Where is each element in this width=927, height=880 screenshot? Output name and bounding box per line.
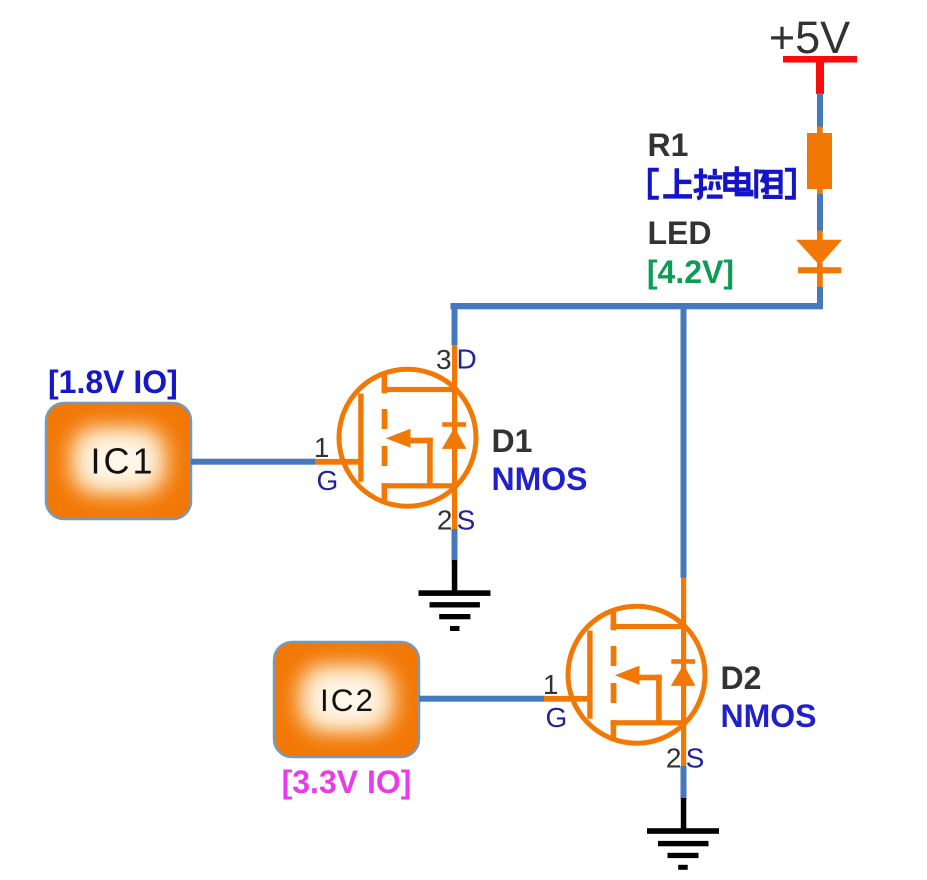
svg-text:[4.2V]: [4.2V] [647,254,734,290]
wire R1 to LED [817,194,823,232]
svg-text:LED: LED [648,215,712,251]
svg-text:D: D [456,344,476,375]
svg-text:[1.8V IO]: [1.8V IO] [48,364,178,400]
D1 channel dashes [382,409,388,429]
wire D2 drain drop [681,303,687,578]
svg-text:IC1: IC1 [90,441,155,482]
wire +5V to R1 [817,93,823,128]
D2 channel dashes [611,646,617,666]
svg-text:2: 2 [437,505,453,536]
D1 body circle [339,369,476,506]
svg-text:S: S [686,742,705,773]
svg-text:+5V: +5V [769,12,850,63]
svg-text:1: 1 [314,432,330,463]
D2 body diode [671,659,695,664]
svg-text:D1: D1 [492,423,533,459]
wire D1 drain drop [452,303,458,345]
wire D2 source to ground [681,766,687,799]
svg-text:IC2: IC2 [320,682,375,718]
wire IC1 to D1 gate [191,459,315,465]
svg-text:G: G [546,702,568,733]
svg-text:S: S [457,505,476,536]
D1 gate bar [358,394,363,482]
label [上拉电阻] [650,166,794,198]
bracket [ [650,170,659,198]
power +5V rail symbol [783,56,857,63]
D1 source bar [382,483,457,488]
svg-text:NMOS: NMOS [492,461,588,497]
svg-text:R1: R1 [648,127,689,163]
D1 substrate arrow [386,429,411,448]
ground G2 [647,798,719,870]
svg-text:3: 3 [436,344,452,375]
D2 substrate arrow [615,666,640,685]
bracket ] [785,170,794,198]
char 拉 part 立 [707,169,723,197]
char 上 [663,168,692,196]
svg-text:[3.3V IO]: [3.3V IO] [282,764,412,800]
D1 gate lead [315,459,361,465]
wire D1 source to ground [452,529,458,561]
wire LED to corner [817,287,823,304]
wire IC2 to D2 gate [419,696,544,702]
D2 source bar [611,720,686,725]
LED diode [796,240,842,266]
svg-text:NMOS: NMOS [721,698,817,734]
svg-text:1: 1 [543,669,559,700]
char 电 [725,166,751,194]
D1 body diode [442,422,466,427]
resistor R1 [807,133,832,189]
D2 drain-source line [681,578,686,767]
wire main horizontal [451,303,824,309]
svg-text:2: 2 [666,742,682,773]
char 拉 radical 扌 [694,168,707,198]
D2 body circle [568,606,705,743]
ground G1 [419,560,491,631]
D2 drain bar [611,624,686,629]
char 阻 radical 阝 [756,169,767,198]
transistor D1 [315,345,476,530]
svg-text:G: G [317,465,339,496]
IC2 box [272,640,421,759]
D2 gate bar [587,631,592,719]
transistor D2 [544,578,705,767]
D2 gate lead [544,696,590,702]
D1 drain bar [382,387,457,392]
char 阻 part 且 [763,172,783,197]
D1 drain-source line [452,345,457,530]
IC1 box [44,401,193,521]
svg-text:D2: D2 [721,660,762,696]
